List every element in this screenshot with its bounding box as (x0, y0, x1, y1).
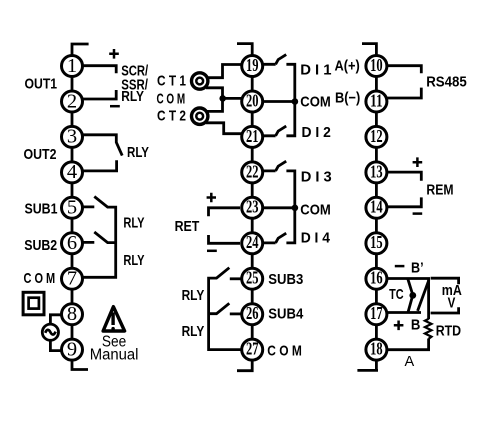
svg-text:D I 2: D I 2 (302, 124, 331, 141)
svg-text:RLY: RLY (182, 323, 205, 340)
svg-text:15: 15 (370, 232, 383, 252)
svg-text:B: B (411, 316, 421, 333)
svg-text:RET: RET (175, 218, 200, 235)
svg-text:20: 20 (246, 90, 259, 110)
svg-text:RLY: RLY (121, 89, 144, 105)
svg-text:10: 10 (370, 55, 383, 75)
svg-text:B(−): B(−) (335, 90, 360, 107)
svg-text:OUT1: OUT1 (25, 75, 58, 92)
svg-text:RLY: RLY (127, 144, 149, 161)
svg-text:5: 5 (67, 197, 77, 219)
svg-text:1: 1 (67, 55, 77, 77)
svg-text:OUT2: OUT2 (24, 146, 57, 163)
svg-text:8: 8 (67, 303, 77, 325)
svg-text:24: 24 (246, 232, 259, 252)
svg-text:C T 2: C T 2 (157, 108, 186, 125)
svg-text:D I 1: D I 1 (300, 62, 331, 79)
svg-text:B’: B’ (411, 260, 424, 277)
svg-text:9: 9 (67, 338, 77, 360)
svg-text:16: 16 (370, 268, 383, 288)
svg-text:SUB3: SUB3 (268, 271, 303, 288)
svg-text:SUB1: SUB1 (25, 200, 58, 217)
svg-text:RTD: RTD (436, 322, 462, 339)
svg-text:C O M: C O M (157, 91, 186, 108)
svg-text:3: 3 (67, 126, 77, 148)
svg-text:22: 22 (246, 161, 259, 181)
svg-text:COM: COM (300, 94, 331, 111)
svg-text:RS485: RS485 (426, 74, 467, 91)
svg-text:27: 27 (246, 339, 259, 359)
svg-text:19: 19 (246, 55, 259, 75)
svg-text:D I 3: D I 3 (301, 168, 332, 185)
svg-text:12: 12 (370, 126, 383, 146)
svg-text:COM: COM (300, 201, 331, 218)
svg-text:SUB4: SUB4 (268, 305, 304, 322)
svg-text:RLY: RLY (123, 215, 144, 232)
svg-text:D I 4: D I 4 (301, 230, 331, 247)
svg-text:RLY: RLY (123, 252, 144, 269)
svg-text:C T 1: C T 1 (157, 72, 186, 89)
svg-text:11: 11 (370, 90, 383, 110)
svg-text:18: 18 (370, 339, 383, 359)
svg-text:2: 2 (67, 90, 77, 112)
svg-text:4: 4 (67, 161, 77, 183)
svg-text:23: 23 (246, 197, 259, 217)
svg-text:7: 7 (67, 268, 77, 290)
svg-text:21: 21 (246, 126, 259, 146)
svg-text:SUB2: SUB2 (24, 237, 57, 254)
svg-text:C O M: C O M (24, 270, 56, 287)
svg-text:14: 14 (370, 197, 383, 217)
svg-text:TC: TC (389, 286, 404, 303)
svg-text:C O M: C O M (267, 342, 302, 359)
svg-text:17: 17 (370, 303, 383, 323)
svg-text:13: 13 (370, 161, 383, 181)
svg-text:REM: REM (426, 182, 453, 199)
svg-text:25: 25 (246, 268, 259, 288)
svg-text:RLY: RLY (182, 287, 205, 304)
svg-text:V: V (448, 295, 456, 312)
svg-text:A(+): A(+) (335, 58, 360, 75)
svg-text:A: A (405, 353, 415, 370)
svg-text:6: 6 (67, 232, 77, 254)
svg-text:26: 26 (246, 303, 259, 323)
svg-text:Manual: Manual (90, 347, 139, 364)
